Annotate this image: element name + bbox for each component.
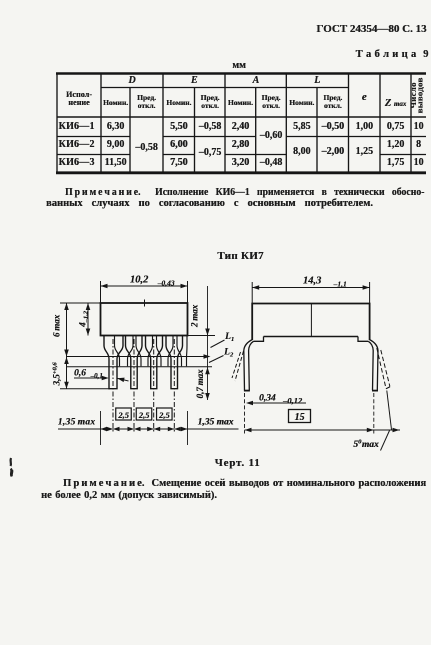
svg-text:–0,43: –0,43: [157, 279, 175, 288]
right view: left bent lead: [244, 340, 253, 391]
right view: width dimension line 14,3-1,1: [252, 287, 369, 289]
left view: body top center tick: [144, 300, 146, 307]
left view: right vertical dimension line (2max, L1, L2, 0,7max): [207, 286, 209, 400]
svg-text:–0,12: –0,12: [282, 396, 303, 406]
left view: pin bottom extension: [60, 388, 110, 390]
right view: framed dimension 15: [289, 410, 311, 423]
svg-text:0,34: 0,34: [259, 394, 276, 404]
left view: back row leads: [115, 336, 120, 367]
table row separator 2: [57, 154, 130, 156]
table row separator 1: [57, 136, 130, 138]
svg-text:L2: L2: [223, 348, 234, 359]
left view: bottom dimension row: [58, 428, 239, 430]
svg-text:10,2: 10,2: [130, 275, 149, 286]
svg-text:L1: L1: [224, 332, 234, 343]
left view: lead center lines: [112, 339, 114, 433]
right view: left lead shoulder: [254, 337, 264, 342]
svg-text:50max: 50max: [353, 439, 379, 451]
right view: right bent lead: [369, 340, 378, 391]
svg-text:6 max: 6 max: [52, 314, 62, 337]
svg-text:2,5: 2,5: [138, 410, 150, 420]
right view: bottom span dimension: [245, 429, 401, 431]
table header bottom line: [57, 116, 426, 118]
left view: front row leads: [104, 336, 123, 389]
svg-text:0,7 max: 0,7 max: [195, 369, 205, 399]
right view: right lead shoulder: [358, 337, 368, 342]
right view: extension lines for width dim: [251, 282, 253, 304]
table vertical dividers: [56, 74, 58, 173]
svg-text:1,35max: 1,35max: [58, 418, 96, 428]
left view: body top extension left: [60, 302, 101, 304]
left view: 6max and 3,5+0,6 dimension line: [66, 303, 68, 389]
right view: left lead max splay (dashed): [235, 351, 244, 381]
right view: body bottom line: [264, 336, 359, 338]
left view: L1 and L2 level lines: [66, 356, 209, 358]
units label: [232, 61, 246, 71]
right view: right lead max splay (dashed): [377, 348, 386, 389]
right view: 5 degree construction line below lead tip: [387, 391, 392, 431]
svg-text:3,5+0,6: 3,5+0,6: [52, 362, 62, 387]
svg-text:выводов: выводов: [415, 78, 425, 114]
left view: width dimension line 10,2-0,43: [101, 285, 188, 287]
svg-text:14,3: 14,3: [303, 276, 321, 287]
left view: package body: [101, 303, 188, 336]
page header: GOST designation: [316, 24, 426, 35]
left view: extension lines for width dim: [100, 281, 102, 303]
svg-text:2 max: 2 max: [190, 304, 200, 328]
svg-text:–0,1: –0,1: [90, 372, 103, 380]
svg-text:2,5: 2,5: [117, 410, 129, 420]
table bottom border: [56, 171, 426, 174]
table header and data text: [66, 91, 92, 99]
table top border: [56, 72, 426, 74]
ink artifact at left margin: [11, 458, 13, 477]
left view: framed pitch values 2,5: [116, 408, 132, 420]
right view: package body outline: [252, 304, 369, 341]
table group label underline: [101, 87, 349, 89]
svg-text:0,6: 0,6: [74, 369, 86, 379]
right view: body center line: [310, 304, 312, 337]
svg-text:–1,1: –1,1: [332, 280, 346, 289]
table caption: [356, 50, 429, 61]
svg-text:15: 15: [295, 412, 305, 423]
svg-text:2,5: 2,5: [158, 410, 170, 420]
svg-text:1,35 max: 1,35 max: [198, 418, 234, 428]
notes and captions: [65, 187, 424, 198]
left view: 4-1,2 dimension: [87, 303, 89, 336]
